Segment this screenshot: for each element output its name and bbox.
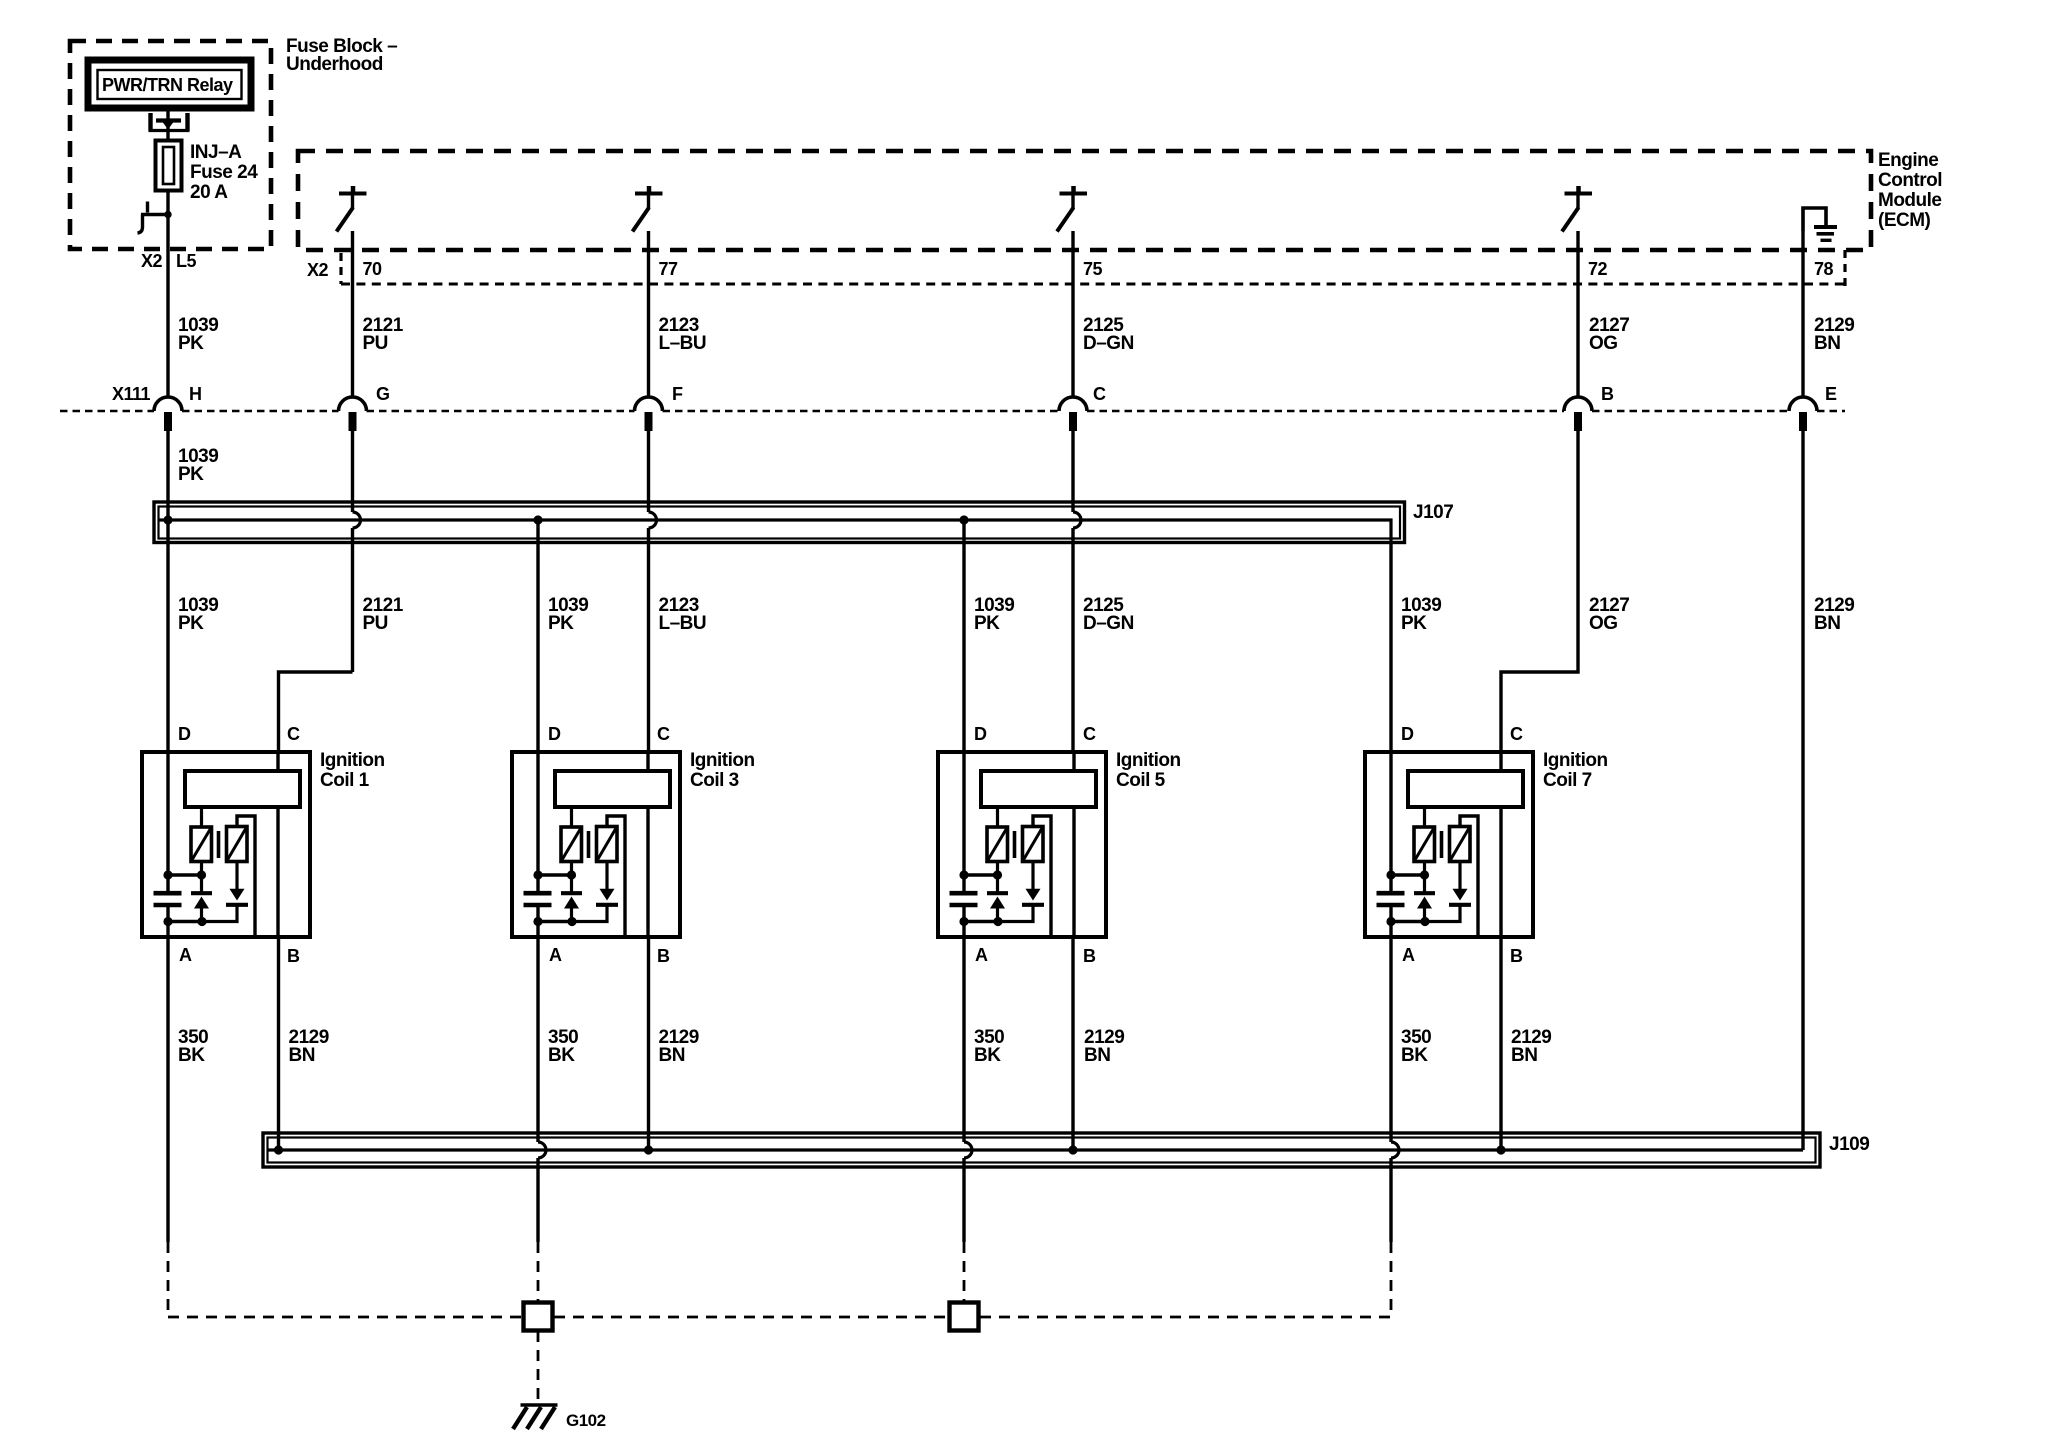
svg-text:X2: X2 — [141, 251, 163, 271]
ignition coil 5 module-to-B wire — [1072, 807, 1075, 937]
svg-text:L–BU: L–BU — [659, 333, 707, 354]
splice J107 bus wire — [159, 520, 1391, 542]
svg-text:B: B — [1601, 384, 1614, 404]
splice J109 junction dots — [274, 1146, 1505, 1154]
wire label 1039 PK to coil5 D — [974, 595, 1014, 634]
wire 1039 PK (J107 to coil 7 D) — [1389, 542, 1392, 752]
wire 2121 PU jog to coil 1 pin C — [279, 672, 353, 752]
ECM connector X2 label and bracket — [307, 253, 341, 284]
wire label 2127 OG to coil7 C — [1589, 595, 1629, 634]
svg-text:F: F — [672, 384, 683, 404]
Engine Control Module (ECM) label — [1878, 150, 1942, 231]
svg-text:C: C — [1510, 724, 1523, 744]
svg-text:J109: J109 — [1829, 1134, 1869, 1155]
ground bus (dashed horizontal) — [168, 1316, 1391, 1319]
svg-text:Fuse 24: Fuse 24 — [190, 162, 258, 183]
svg-text:BK: BK — [178, 1045, 205, 1066]
wire 2121 PU (ECM driver to X111) — [351, 231, 354, 398]
svg-text:D–GN: D–GN — [1083, 333, 1134, 354]
ignition coil 5 label — [1116, 750, 1181, 791]
svg-text:Control: Control — [1878, 170, 1942, 191]
ignition coil 3 (outer case) — [512, 752, 680, 937]
svg-text:G: G — [376, 384, 390, 404]
svg-text:Engine: Engine — [1878, 150, 1938, 171]
ignition coil 3 module-to-B wire — [646, 807, 649, 937]
svg-text:(ECM): (ECM) — [1878, 210, 1931, 231]
svg-text:Coil 3: Coil 3 — [690, 770, 739, 791]
splice J107 (outer shell) — [154, 502, 1405, 543]
ignition coil 7 (outer case) — [1365, 752, 1533, 937]
svg-text:BN: BN — [1814, 333, 1840, 354]
ignition coil 7 upper junction rail — [1387, 871, 1429, 879]
ground wire 350 BK coil3 (dashed drop) — [537, 1242, 540, 1302]
ground splice box at coil3 drop — [524, 1303, 553, 1331]
wire label 2121 PU to coil1 C — [363, 595, 404, 634]
wire 2129 BN (ECM ground to X111) — [1801, 231, 1804, 398]
ignition coil 1 D feed wire (inside case) — [166, 752, 169, 937]
svg-text:OG: OG — [1589, 333, 1618, 354]
svg-text:75: 75 — [1083, 259, 1103, 279]
svg-text:INJ–A: INJ–A — [190, 142, 242, 163]
svg-text:PK: PK — [178, 613, 204, 634]
fuse INJ-A Fuse 24 20 A — [156, 141, 182, 191]
ignition coil 1 zener diode (up) — [191, 862, 212, 922]
ignition coil 1 (outer case) — [142, 752, 310, 937]
svg-text:BN: BN — [289, 1045, 315, 1066]
svg-text:G102: G102 — [566, 1411, 606, 1430]
svg-text:L5: L5 — [176, 251, 196, 271]
ignition coil 5 diode (down) — [998, 862, 1044, 922]
svg-text:BN: BN — [1814, 613, 1840, 634]
wire label 350 BK coil1 A — [178, 1027, 208, 1066]
wire label 1039 PK to coil7 D — [1401, 595, 1441, 634]
wire label 1039 PK (fuse to X111) — [178, 315, 218, 354]
ECM ignition control driver for coil 3 — [633, 186, 663, 232]
connector X111 boundary (dotted) — [60, 410, 1845, 413]
ignition coil 7 diode (down) — [1425, 862, 1471, 922]
wire 2129 BN (coil5 B to J109) — [1071, 937, 1074, 1150]
wire label 2123 L-BU upper — [659, 315, 707, 354]
svg-text:B: B — [1510, 946, 1523, 966]
splice J109 (inner shell) — [268, 1138, 1816, 1163]
ECM ignition control driver for coil 1 — [337, 186, 367, 232]
splice J109 bus wire — [268, 1148, 1803, 1151]
svg-text:B: B — [657, 946, 670, 966]
svg-text:20 A: 20 A — [190, 182, 228, 203]
Fuse Block - Underhood (dashed enclosure) — [70, 41, 271, 249]
wire label 2129 BN coil7 B — [1511, 1027, 1551, 1066]
ignition coil 7 zener diode (up) — [1414, 862, 1435, 922]
wire label 2129 BN right side — [1814, 595, 1854, 634]
ignition coil 3 upper junction rail — [534, 871, 576, 879]
wire 350 BK (coil5 A down, hops over J109) — [964, 937, 972, 1242]
ignition coil 5 C-to-module wire — [1072, 752, 1075, 771]
svg-text:78: 78 — [1814, 259, 1834, 279]
wire label 2123 L-BU to coil3 C — [659, 595, 707, 634]
svg-text:Module: Module — [1878, 190, 1942, 211]
wire 1039 PK (J107 to coil 5 D) — [962, 520, 965, 752]
svg-text:Coil 1: Coil 1 — [320, 770, 370, 791]
ignition coil 1 core line — [217, 831, 221, 858]
wire label 2129 BN upper — [1814, 315, 1854, 354]
ignition coil 5 zener diode (up) — [987, 862, 1008, 922]
svg-text:Ignition: Ignition — [1543, 750, 1608, 771]
ground wire 350 BK coil1 (dashed drop) — [167, 1242, 170, 1317]
ignition coil 1 secondary winding (right, slashed box) — [227, 827, 248, 862]
svg-text:72: 72 — [1588, 259, 1608, 279]
svg-text:A: A — [179, 945, 192, 965]
ignition coil 5 primary winding (left, slashed box) — [987, 807, 1008, 862]
svg-text:Coil 7: Coil 7 — [1543, 770, 1592, 791]
ignition coil 3 label — [690, 750, 755, 791]
ignition coil 3 core line — [587, 831, 591, 858]
ignition coil 3 C-to-module wire — [646, 752, 649, 771]
ignition coil 3 diode (down) — [572, 862, 618, 922]
terminal clip above fuse (bracket + arrow) — [149, 113, 190, 131]
ignition coil 3 zener diode (up) — [561, 862, 582, 922]
ignition coil 1 capacitor — [154, 893, 182, 905]
ignition coil 7 D feed wire (inside case) — [1389, 752, 1392, 937]
ignition coil 7 primary winding (left, slashed box) — [1414, 807, 1435, 862]
ignition coil 1 primary module box — [185, 771, 300, 807]
connector X111 pin H (female half + male pin) — [154, 384, 202, 431]
svg-text:PK: PK — [1401, 613, 1427, 634]
svg-text:PK: PK — [178, 464, 204, 485]
svg-text:OG: OG — [1589, 613, 1618, 634]
svg-text:BN: BN — [659, 1045, 685, 1066]
svg-text:BN: BN — [1084, 1045, 1110, 1066]
ignition coil 1 primary winding (left, slashed box) — [191, 807, 212, 862]
svg-text:D: D — [974, 724, 987, 744]
svg-text:C: C — [1093, 384, 1106, 404]
connector X111 pin G (female half + male pin) — [339, 384, 390, 431]
connector X111 pin E (female half + male pin) — [1789, 384, 1837, 431]
svg-text:Ignition: Ignition — [1116, 750, 1181, 771]
svg-text:D: D — [548, 724, 561, 744]
ignition coil 7 secondary-to-tower bridge wire — [1460, 816, 1478, 937]
wire label 1039 PK below X111 — [178, 446, 218, 485]
svg-text:X2: X2 — [307, 260, 329, 280]
svg-text:Coil 5: Coil 5 — [1116, 770, 1166, 791]
ignition coil 3 primary module box — [555, 771, 670, 807]
svg-text:70: 70 — [363, 259, 383, 279]
svg-text:PK: PK — [548, 613, 574, 634]
wire label 2129 BN coil1 B — [289, 1027, 329, 1066]
svg-text:A: A — [1402, 945, 1415, 965]
ground wire 350 BK coil7 (dashed drop) — [1390, 1242, 1393, 1317]
svg-text:Ignition: Ignition — [690, 750, 755, 771]
ground G102 symbol — [513, 1405, 558, 1429]
wire 2129 BN (coil7 B to J109) — [1499, 937, 1502, 1150]
wire 2129 BN (X111 to J109 right end) — [1801, 430, 1804, 1150]
wire 2125 D-GN (ECM driver to X111) — [1071, 231, 1074, 398]
svg-text:Ignition: Ignition — [320, 750, 385, 771]
ignition coil 1 label — [320, 750, 385, 791]
wire 2121 PU (X111 through J107) — [353, 430, 361, 672]
svg-text:BK: BK — [974, 1045, 1001, 1066]
svg-text:L–BU: L–BU — [659, 613, 707, 634]
wire label 2125 D-GN to coil5 C — [1083, 595, 1134, 634]
ignition coil 7 module-to-B wire — [1499, 807, 1502, 937]
svg-text:X111: X111 — [112, 384, 151, 404]
splice J109 (outer shell) — [263, 1133, 1820, 1167]
ignition coil 3 secondary-to-tower bridge wire — [607, 816, 625, 937]
svg-text:J107: J107 — [1413, 502, 1453, 523]
ignition coil 1 secondary-to-tower bridge wire — [237, 816, 255, 937]
ground wire 350 BK coil5 (dashed drop) — [963, 1242, 966, 1302]
ignition coil 1 lower junction rail — [164, 917, 206, 925]
svg-text:D–GN: D–GN — [1083, 613, 1134, 634]
ignition coil 7 core line — [1440, 831, 1444, 858]
svg-text:H: H — [189, 384, 202, 404]
wire 2125 D-GN (X111 through J107) — [1073, 430, 1081, 752]
ignition coil 5 lower junction rail — [960, 917, 1002, 925]
wire label 2125 D-GN upper — [1083, 315, 1134, 354]
svg-text:A: A — [975, 945, 988, 965]
wire 2127 OG (X111 down and jog to coil 7 pin C) — [1501, 430, 1578, 752]
wire label 350 BK coil5 A — [974, 1027, 1004, 1066]
ignition coil 7 capacitor — [1377, 893, 1405, 905]
svg-text:BK: BK — [1401, 1045, 1428, 1066]
wire 2127 OG (ECM driver to X111) — [1576, 231, 1579, 398]
wire 1039 PK (X111 to J107) — [166, 430, 169, 521]
ECM connector X2 right-end bracket — [1843, 250, 1846, 292]
svg-text:PWR/TRN Relay: PWR/TRN Relay — [102, 75, 233, 95]
wire 350 BK (coil3 A down, hops over J109) — [538, 937, 546, 1242]
wire 1039 PK (J107 to coil 3 D) — [536, 520, 539, 752]
splice J107 junction dots — [164, 516, 968, 524]
wire 2123 L-BU (X111 through J107) — [649, 430, 657, 752]
ignition coil 5 capacitor — [950, 893, 978, 905]
wire label 1039 PK to coil3 D — [548, 595, 588, 634]
wire 350 BK (coil7 A down, hops over J109) — [1391, 937, 1399, 1242]
in-line terminal hook below fuse — [138, 202, 172, 234]
ignition coil 7 secondary winding (right, slashed box) — [1450, 827, 1471, 862]
ignition coil 5 secondary-to-tower bridge wire — [1033, 816, 1051, 937]
connector X111 pin B (female half + male pin) — [1564, 384, 1614, 431]
ignition coil 1 upper junction rail — [164, 871, 206, 879]
svg-text:PU: PU — [363, 333, 388, 354]
connector X111 pin C (female half + male pin) — [1059, 384, 1106, 431]
svg-text:BK: BK — [548, 1045, 575, 1066]
ECM ignition control driver for coil 7 — [1562, 186, 1592, 232]
svg-text:B: B — [287, 946, 300, 966]
connector X111 pin F (female half + male pin) — [635, 384, 684, 431]
svg-text:C: C — [287, 724, 300, 744]
svg-text:Underhood: Underhood — [286, 54, 383, 75]
Fuse Block - Underhood label — [286, 36, 397, 75]
wire fuse to X111 (1039 PK) — [166, 191, 169, 399]
svg-text:PU: PU — [363, 613, 388, 634]
ignition coil 7 C-to-module wire — [1499, 752, 1502, 771]
ignition coil 7 primary module box — [1408, 771, 1523, 807]
ground splice box at coil5 drop — [950, 1303, 979, 1331]
ignition coil 3 primary winding (left, slashed box) — [561, 807, 582, 862]
wire 2123 L-BU (ECM driver to X111) — [647, 231, 650, 398]
svg-text:C: C — [1083, 724, 1096, 744]
ignition coil 3 capacitor — [524, 893, 552, 905]
wire relay output — [166, 108, 169, 141]
ECM connector X2 boundary (dotted) — [341, 283, 1845, 286]
ignition coil 3 lower junction rail — [534, 917, 576, 925]
wire label 2127 OG upper — [1589, 315, 1629, 354]
wire label 2121 PU upper — [363, 315, 404, 354]
fuse block pin labels X2 / L5 — [141, 251, 196, 271]
svg-text:B: B — [1083, 946, 1096, 966]
svg-text:A: A — [549, 945, 562, 965]
svg-text:E: E — [1825, 384, 1837, 404]
wire label 2129 BN coil3 B — [659, 1027, 699, 1066]
svg-text:PK: PK — [178, 333, 204, 354]
ECM internal ground symbol (pin 78 net) — [1803, 208, 1837, 240]
relay PWR/TRN Relay (bold box) — [88, 60, 251, 108]
wire label 350 BK coil3 A — [548, 1027, 578, 1066]
ignition coil 1 diode (down) — [202, 862, 248, 922]
ignition coil 5 upper junction rail — [960, 871, 1002, 879]
wire 350 BK (coil1 A down) — [166, 937, 169, 1242]
fuse label INJ-A / Fuse 24 / 20 A — [190, 142, 258, 203]
svg-text:PK: PK — [974, 613, 1000, 634]
wire label 1039 PK to coil1 D — [178, 595, 218, 634]
svg-text:D: D — [178, 724, 191, 744]
wire label 350 BK coil7 A — [1401, 1027, 1431, 1066]
ignition coil 5 core line — [1013, 831, 1017, 858]
wire 2129 BN (coil3 B to J109) — [647, 937, 650, 1150]
ignition coil 5 D feed wire (inside case) — [962, 752, 965, 937]
ignition coil 7 lower junction rail — [1387, 917, 1429, 925]
ignition coil 5 primary module box — [981, 771, 1096, 807]
svg-text:C: C — [657, 724, 670, 744]
ignition coil 3 D feed wire (inside case) — [536, 752, 539, 937]
Engine Control Module (ECM) dashed enclosure — [298, 151, 1871, 250]
wire 2129 BN (coil1 B to J109) — [277, 937, 280, 1150]
ECM ignition control driver for coil 5 — [1057, 186, 1087, 232]
splice J107 (inner shell) — [159, 507, 1401, 539]
svg-text:D: D — [1401, 724, 1414, 744]
svg-text:77: 77 — [659, 259, 679, 279]
ground wire to G102 (dashed) — [537, 1331, 540, 1399]
ignition coil 7 label — [1543, 750, 1608, 791]
ignition coil 5 secondary winding (right, slashed box) — [1023, 827, 1044, 862]
ignition coil 3 secondary winding (right, slashed box) — [597, 827, 618, 862]
wire 1039 PK (J107 to coil 1 D) — [166, 520, 169, 752]
ignition coil 1 C-to-module wire — [276, 752, 279, 771]
svg-text:BN: BN — [1511, 1045, 1537, 1066]
wire label 2129 BN coil5 B — [1084, 1027, 1124, 1066]
ignition coil 1 module-to-B wire — [276, 807, 279, 937]
ignition coil 5 (outer case) — [938, 752, 1106, 937]
